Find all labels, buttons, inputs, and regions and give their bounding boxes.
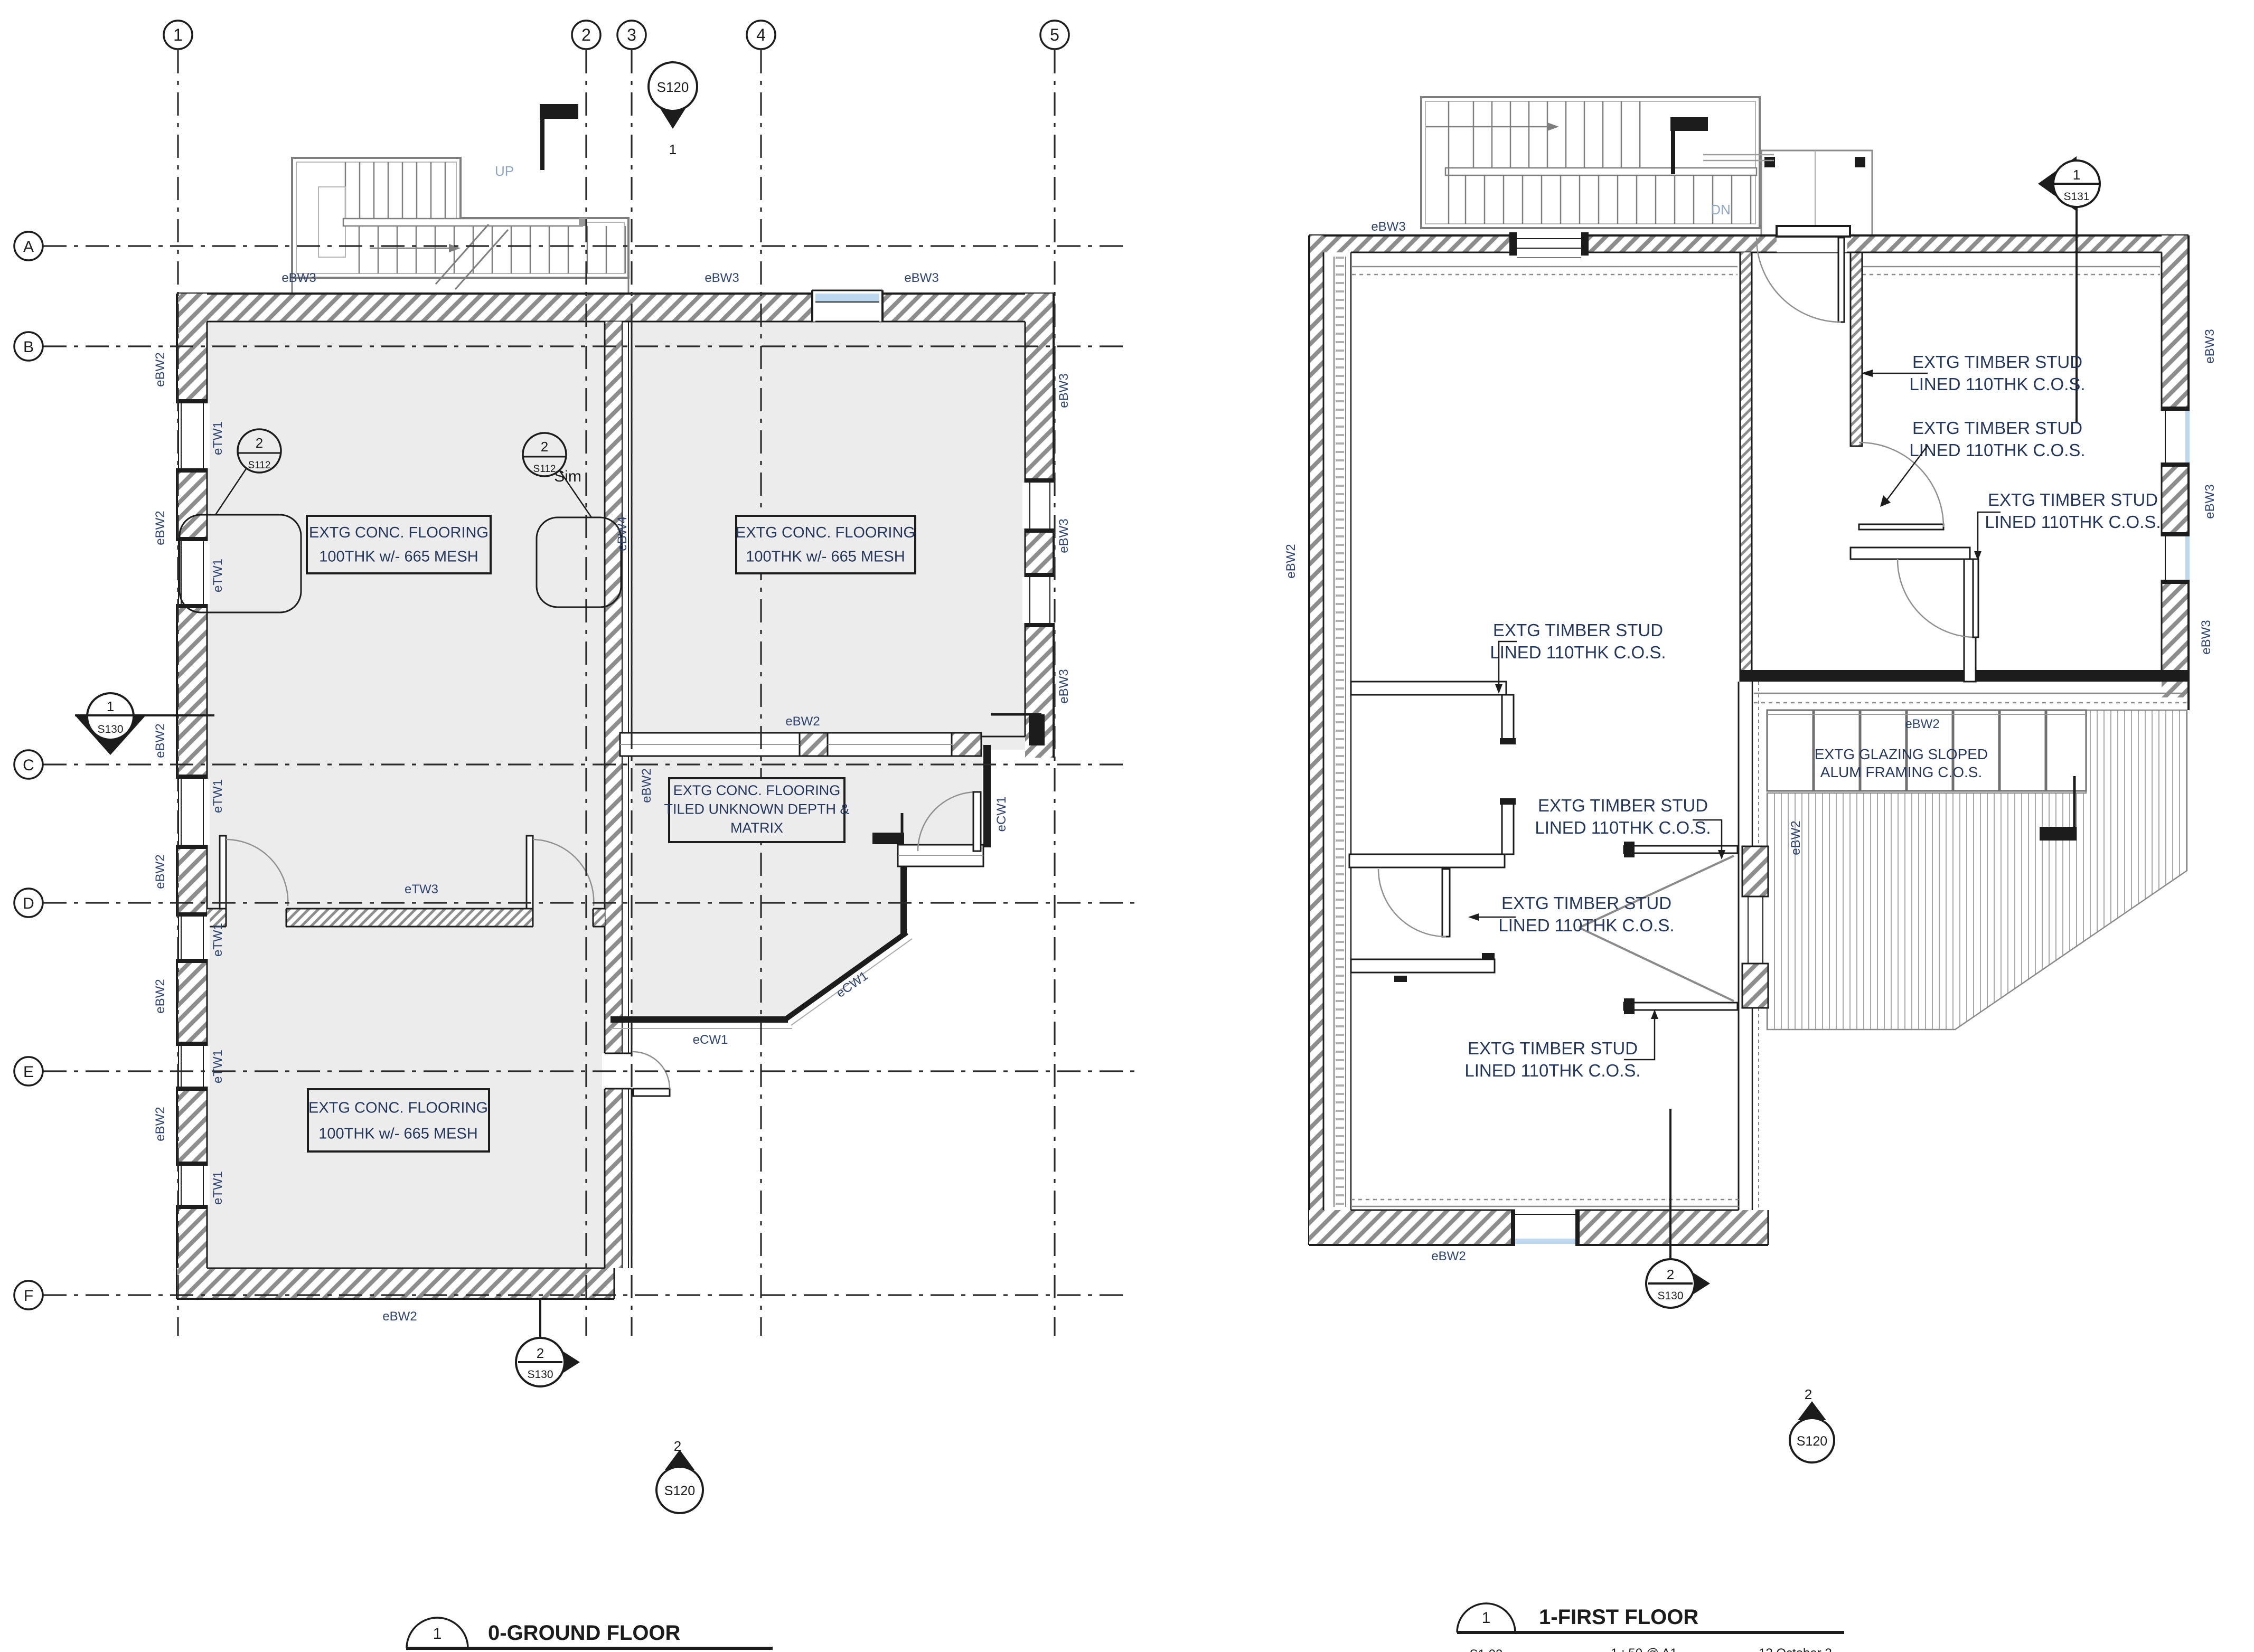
svg-text:2: 2 xyxy=(581,25,591,44)
svg-text:eBW3: eBW3 xyxy=(2199,620,2213,654)
svg-text:eBW2: eBW2 xyxy=(785,714,820,729)
svg-text:DN: DN xyxy=(1711,202,1731,218)
svg-text:LINED 110THK C.O.S.: LINED 110THK C.O.S. xyxy=(1535,818,1711,837)
svg-text:100THK w/- 665 MESH: 100THK w/- 665 MESH xyxy=(319,548,478,565)
svg-text:eBW2: eBW2 xyxy=(153,854,167,889)
svg-text:S130: S130 xyxy=(527,1368,553,1381)
svg-text:0-GROUND FLOOR: 0-GROUND FLOOR xyxy=(488,1621,681,1645)
svg-text:eCW1: eCW1 xyxy=(693,1033,728,1047)
svg-text:2: 2 xyxy=(1805,1386,1812,1402)
svg-text:S130: S130 xyxy=(1657,1290,1683,1302)
svg-text:EXTG CONC. FLOORING: EXTG CONC. FLOORING xyxy=(673,782,841,798)
svg-text:LINED 110THK C.O.S.: LINED 110THK C.O.S. xyxy=(1464,1061,1640,1080)
svg-text:eBW2: eBW2 xyxy=(640,768,654,803)
svg-text:eBW2: eBW2 xyxy=(153,979,167,1013)
svg-text:F: F xyxy=(24,1287,33,1305)
svg-text:EXTG TIMBER STUD: EXTG TIMBER STUD xyxy=(1912,352,2082,372)
svg-text:eBW2: eBW2 xyxy=(1905,717,1939,731)
svg-text:eBW3: eBW3 xyxy=(2203,329,2217,363)
svg-text:eBW3: eBW3 xyxy=(281,271,316,285)
svg-text:eBW3: eBW3 xyxy=(904,271,938,285)
svg-text:S112: S112 xyxy=(533,464,556,475)
svg-text:eBW4: eBW4 xyxy=(615,516,630,551)
svg-text:EXTG TIMBER STUD: EXTG TIMBER STUD xyxy=(1912,418,2082,438)
svg-text:3: 3 xyxy=(627,25,636,44)
svg-text:EXTG TIMBER STUD: EXTG TIMBER STUD xyxy=(1468,1039,1638,1058)
svg-text:12 October 2...: 12 October 2... xyxy=(1759,1646,1843,1652)
svg-text:2: 2 xyxy=(1667,1267,1674,1282)
svg-text:2: 2 xyxy=(537,1345,544,1361)
svg-text:eBW3: eBW3 xyxy=(1057,518,1071,553)
svg-text:1: 1 xyxy=(433,1625,442,1642)
svg-text:eTW1: eTW1 xyxy=(211,421,225,455)
svg-text:eTW1: eTW1 xyxy=(211,1050,225,1083)
svg-text:2: 2 xyxy=(256,435,263,451)
svg-text:1: 1 xyxy=(669,141,677,157)
svg-text:eTW1: eTW1 xyxy=(211,1171,225,1205)
svg-text:Sim: Sim xyxy=(554,468,581,485)
svg-text:eBW3: eBW3 xyxy=(1057,669,1071,703)
svg-text:EXTG TIMBER STUD: EXTG TIMBER STUD xyxy=(1501,893,1671,913)
svg-text:eBW2: eBW2 xyxy=(382,1309,417,1324)
svg-text:S112: S112 xyxy=(248,460,271,471)
svg-text:eBW2: eBW2 xyxy=(153,1107,167,1141)
svg-text:eBW2: eBW2 xyxy=(153,352,167,386)
svg-text:E: E xyxy=(23,1063,34,1081)
svg-text:1-FIRST FLOOR: 1-FIRST FLOOR xyxy=(1539,1606,1698,1629)
svg-text:eBW3: eBW3 xyxy=(705,271,739,285)
svg-text:2: 2 xyxy=(541,439,548,455)
svg-text:eBW2: eBW2 xyxy=(1431,1249,1466,1263)
svg-text:eBW2: eBW2 xyxy=(153,511,167,545)
svg-text:C: C xyxy=(23,757,34,774)
svg-text:ALUM FRAMING C.O.S.: ALUM FRAMING C.O.S. xyxy=(1820,764,1982,780)
svg-text:eBW2: eBW2 xyxy=(153,723,167,758)
svg-text:1: 1 xyxy=(2073,167,2080,183)
svg-text:TILED UNKNOWN DEPTH &: TILED UNKNOWN DEPTH & xyxy=(664,801,849,817)
svg-text:B: B xyxy=(23,338,34,356)
svg-text:eBW3: eBW3 xyxy=(1371,220,1405,234)
svg-text:100THK w/- 665 MESH: 100THK w/- 665 MESH xyxy=(746,548,905,565)
svg-text:EXTG GLAZING SLOPED: EXTG GLAZING SLOPED xyxy=(1815,746,1988,762)
svg-text:eBW2: eBW2 xyxy=(1284,544,1298,578)
svg-text:S120: S120 xyxy=(664,1484,695,1498)
svg-text:LINED 110THK C.O.S.: LINED 110THK C.O.S. xyxy=(1985,512,2161,532)
svg-text:1: 1 xyxy=(1482,1609,1491,1627)
svg-text:EXTG TIMBER STUD: EXTG TIMBER STUD xyxy=(1988,490,2158,509)
svg-text:eTW1: eTW1 xyxy=(211,779,225,813)
svg-text:S130: S130 xyxy=(97,723,123,735)
svg-text:1 : 50 @ A1: 1 : 50 @ A1 xyxy=(1611,1646,1677,1652)
svg-text:LINED 110THK C.O.S.: LINED 110THK C.O.S. xyxy=(1909,440,2085,460)
svg-text:S1.03: S1.03 xyxy=(1470,1647,1503,1652)
svg-text:D: D xyxy=(23,895,34,912)
svg-text:eCW1: eCW1 xyxy=(994,797,1009,832)
svg-text:EXTG TIMBER STUD: EXTG TIMBER STUD xyxy=(1538,796,1708,815)
svg-text:eTW1: eTW1 xyxy=(211,559,225,592)
svg-text:eBW3: eBW3 xyxy=(2203,484,2217,518)
svg-text:5: 5 xyxy=(1050,25,1059,44)
svg-text:eTW3: eTW3 xyxy=(405,882,438,896)
svg-text:S131: S131 xyxy=(2063,191,2089,203)
svg-text:EXTG TIMBER STUD: EXTG TIMBER STUD xyxy=(1493,620,1663,640)
svg-text:EXTG CONC. FLOORING: EXTG CONC. FLOORING xyxy=(309,524,489,541)
svg-text:S120: S120 xyxy=(657,79,689,95)
svg-text:EXTG CONC. FLOORING: EXTG CONC. FLOORING xyxy=(736,524,915,541)
svg-text:1: 1 xyxy=(173,25,183,44)
svg-text:100THK w/- 665 MESH: 100THK w/- 665 MESH xyxy=(318,1125,477,1142)
svg-text:eBW2: eBW2 xyxy=(1789,820,1803,855)
svg-text:S120: S120 xyxy=(1797,1434,1827,1449)
svg-text:eTW1: eTW1 xyxy=(211,923,225,957)
svg-text:LINED 110THK C.O.S.: LINED 110THK C.O.S. xyxy=(1498,915,1674,935)
svg-text:UP: UP xyxy=(495,163,514,179)
svg-text:1: 1 xyxy=(107,698,114,714)
svg-text:eBW3: eBW3 xyxy=(1057,373,1071,408)
svg-text:MATRIX: MATRIX xyxy=(730,820,783,836)
svg-text:A: A xyxy=(23,238,34,256)
svg-text:LINED 110THK C.O.S.: LINED 110THK C.O.S. xyxy=(1909,374,2085,394)
svg-text:LINED 110THK C.O.S.: LINED 110THK C.O.S. xyxy=(1490,643,1666,662)
svg-text:EXTG CONC. FLOORING: EXTG CONC. FLOORING xyxy=(308,1099,488,1116)
svg-text:4: 4 xyxy=(756,25,766,44)
